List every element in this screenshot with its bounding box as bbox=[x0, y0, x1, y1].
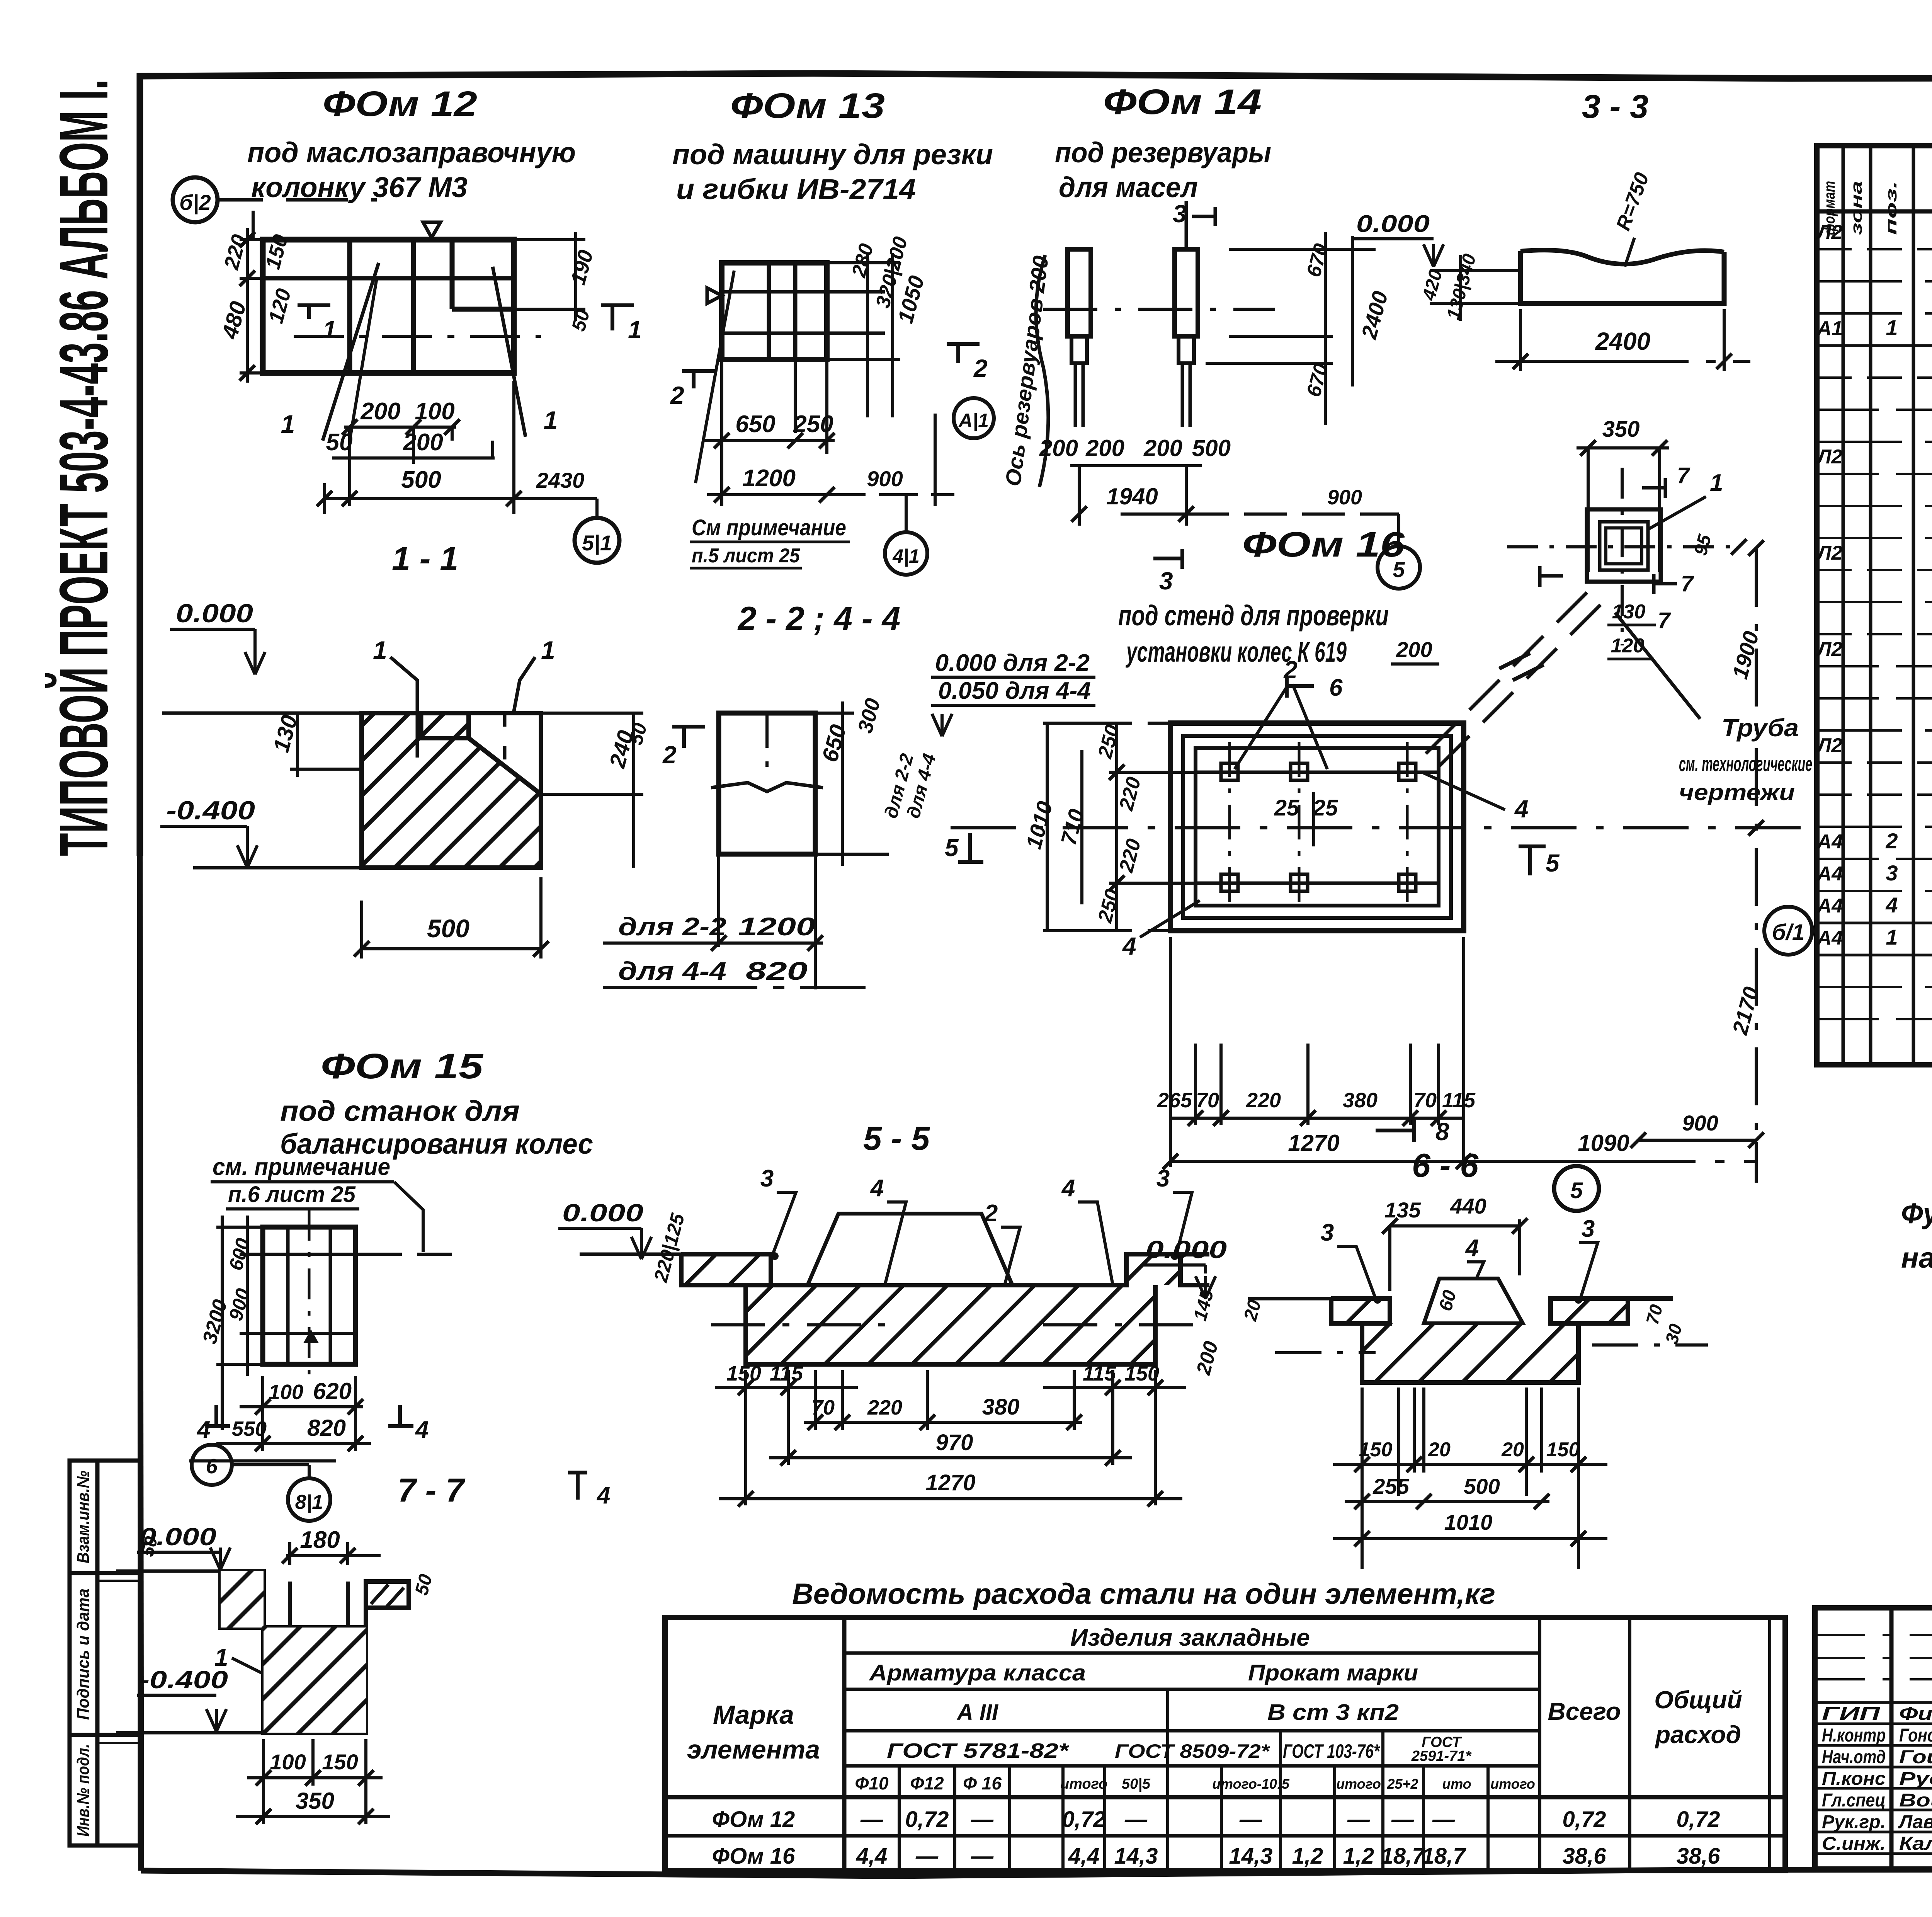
svg-text:1200: 1200 bbox=[738, 912, 815, 941]
svg-text:Гл.спец: Гл.спец bbox=[1822, 1790, 1886, 1811]
svg-text:Арматура класса: Арматура класса bbox=[869, 1660, 1086, 1685]
svg-text:2 - 2 ; 4 - 4: 2 - 2 ; 4 - 4 bbox=[737, 600, 901, 637]
svg-text:8: 8 bbox=[1435, 1118, 1449, 1146]
svg-text:А4: А4 bbox=[1816, 831, 1843, 853]
svg-text:итого: итого bbox=[1490, 1776, 1535, 1792]
svg-text:Всего: Всего bbox=[1548, 1697, 1621, 1725]
svg-text:620: 620 bbox=[313, 1378, 352, 1404]
svg-text:Ф12: Ф12 bbox=[910, 1773, 944, 1793]
svg-text:—: — bbox=[971, 1844, 994, 1869]
svg-text:-0.400: -0.400 bbox=[166, 796, 255, 825]
svg-text:4: 4 bbox=[1061, 1175, 1075, 1202]
svg-text:ГОСТ 5781-82*: ГОСТ 5781-82* bbox=[887, 1739, 1070, 1762]
svg-text:7: 7 bbox=[1677, 463, 1690, 488]
svg-text:4: 4 bbox=[1465, 1235, 1479, 1262]
svg-text:650: 650 bbox=[735, 411, 775, 438]
svg-text:200: 200 bbox=[1143, 435, 1182, 461]
svg-text:5|1: 5|1 bbox=[582, 531, 612, 555]
svg-text:350: 350 bbox=[296, 1788, 334, 1814]
svg-text:установки колес К 619: установки колес К 619 bbox=[1125, 636, 1347, 668]
svg-text:4: 4 bbox=[870, 1175, 884, 1202]
svg-text:3: 3 bbox=[1582, 1216, 1595, 1242]
svg-text:900: 900 bbox=[867, 466, 903, 491]
svg-text:180: 180 bbox=[300, 1527, 340, 1553]
svg-text:Н.контр: Н.контр bbox=[1822, 1725, 1886, 1746]
svg-text:1: 1 bbox=[1886, 315, 1898, 340]
svg-text:1: 1 bbox=[1710, 470, 1723, 496]
svg-text:130: 130 bbox=[1612, 601, 1646, 623]
svg-text:4: 4 bbox=[1514, 795, 1529, 823]
svg-text:7 - 7: 7 - 7 bbox=[398, 1472, 466, 1509]
svg-text:14,3: 14,3 bbox=[1114, 1844, 1158, 1869]
svg-text:итого: итого bbox=[1060, 1776, 1107, 1792]
svg-text:150: 150 bbox=[1124, 1362, 1159, 1385]
svg-text:под машину для резки: под машину для резки bbox=[672, 138, 993, 170]
svg-text:см. примечание: см. примечание bbox=[213, 1154, 390, 1180]
svg-text:Гошкин: Гошкин bbox=[1899, 1747, 1932, 1767]
svg-text:1270: 1270 bbox=[925, 1470, 975, 1495]
svg-text:5: 5 bbox=[1570, 1178, 1583, 1203]
svg-text:п.5 лист 25: п.5 лист 25 bbox=[692, 545, 800, 567]
svg-text:38,6: 38,6 bbox=[1563, 1844, 1607, 1869]
svg-text:0.000: 0.000 bbox=[562, 1199, 643, 1227]
svg-text:А4: А4 bbox=[1816, 863, 1843, 885]
svg-text:Л2: Л2 bbox=[1816, 734, 1843, 757]
svg-text:и гибки ИВ-2714: и гибки ИВ-2714 bbox=[676, 173, 916, 205]
svg-text:—: — bbox=[1124, 1807, 1148, 1832]
svg-text:1270: 1270 bbox=[1288, 1130, 1339, 1156]
svg-text:2: 2 bbox=[662, 741, 677, 769]
svg-text:0,72: 0,72 bbox=[905, 1807, 949, 1832]
svg-text:7: 7 bbox=[1681, 571, 1694, 596]
svg-text:1,2: 1,2 bbox=[1343, 1844, 1374, 1869]
svg-text:0.000: 0.000 bbox=[1146, 1236, 1227, 1263]
svg-text:150: 150 bbox=[1359, 1439, 1393, 1461]
svg-text:1010: 1010 bbox=[1444, 1510, 1493, 1534]
svg-text:0.000: 0.000 bbox=[1356, 211, 1430, 237]
svg-text:500: 500 bbox=[1192, 435, 1231, 461]
svg-text:50|5: 50|5 bbox=[1122, 1776, 1151, 1792]
svg-text:3: 3 bbox=[1159, 567, 1173, 595]
svg-text:0.000 для 2-2: 0.000 для 2-2 bbox=[935, 650, 1090, 676]
svg-text:ФОм 14: ФОм 14 bbox=[1103, 82, 1262, 122]
svg-text:2: 2 bbox=[1885, 829, 1898, 853]
svg-text:Ф 16: Ф 16 bbox=[963, 1773, 1002, 1793]
svg-text:на листе 25.: на листе 25. bbox=[1901, 1242, 1932, 1274]
svg-text:4: 4 bbox=[1885, 893, 1898, 917]
svg-text:70: 70 bbox=[1413, 1089, 1437, 1112]
svg-text:20: 20 bbox=[1501, 1439, 1524, 1461]
svg-text:чертежи: чертежи bbox=[1679, 780, 1795, 805]
svg-text:п.6 лист 25: п.6 лист 25 bbox=[228, 1182, 356, 1207]
svg-text:ито: ито bbox=[1442, 1776, 1471, 1792]
svg-text:0,72: 0,72 bbox=[1677, 1807, 1720, 1832]
svg-text:А1: А1 bbox=[1816, 317, 1843, 340]
svg-text:150: 150 bbox=[726, 1362, 761, 1385]
svg-text:500: 500 bbox=[427, 914, 469, 943]
svg-text:Л2: Л2 bbox=[1816, 446, 1843, 468]
svg-text:2591-71*: 2591-71* bbox=[1411, 1748, 1472, 1764]
svg-text:Финкер: Финкер bbox=[1899, 1704, 1932, 1724]
svg-text:Труба: Труба bbox=[1721, 714, 1799, 742]
svg-text:200: 200 bbox=[403, 429, 443, 456]
svg-text:1090: 1090 bbox=[1578, 1130, 1629, 1156]
svg-text:ФОм 12: ФОм 12 bbox=[712, 1807, 795, 1832]
svg-text:Инв.№ подл.: Инв.№ подл. bbox=[74, 1744, 93, 1837]
svg-text:Калинич: Калинич bbox=[1899, 1834, 1932, 1854]
svg-text:200: 200 bbox=[1039, 435, 1078, 461]
svg-text:б|2: б|2 bbox=[179, 190, 211, 215]
svg-text:итого-10:5: итого-10:5 bbox=[1212, 1776, 1290, 1792]
svg-text:900: 900 bbox=[1682, 1111, 1718, 1135]
svg-text:820: 820 bbox=[307, 1415, 346, 1441]
svg-text:1: 1 bbox=[281, 410, 295, 438]
svg-text:440: 440 bbox=[1450, 1194, 1486, 1218]
svg-text:550: 550 bbox=[232, 1417, 267, 1440]
svg-text:П.конс: П.конс bbox=[1822, 1769, 1886, 1789]
svg-text:0,72: 0,72 bbox=[1062, 1807, 1106, 1832]
svg-text:3: 3 bbox=[1156, 1165, 1170, 1192]
svg-text:380: 380 bbox=[982, 1394, 1020, 1420]
svg-text:4: 4 bbox=[1122, 932, 1136, 960]
svg-text:0,72: 0,72 bbox=[1563, 1807, 1606, 1832]
svg-text:ГИП: ГИП bbox=[1822, 1704, 1881, 1724]
svg-text:135: 135 bbox=[1384, 1198, 1421, 1222]
svg-text:для 2-2: для 2-2 bbox=[618, 912, 726, 941]
svg-text:колонку 367 М3: колонку 367 М3 bbox=[251, 171, 468, 203]
svg-text:220: 220 bbox=[1246, 1089, 1281, 1112]
svg-text:под стенд для проверки: под стенд для проверки bbox=[1118, 599, 1389, 632]
svg-text:0.050 для 4-4: 0.050 для 4-4 bbox=[938, 678, 1091, 704]
svg-text:25+2: 25+2 bbox=[1386, 1776, 1418, 1792]
svg-text:1: 1 bbox=[544, 406, 558, 434]
svg-text:70: 70 bbox=[1196, 1089, 1219, 1112]
svg-text:—: — bbox=[1391, 1807, 1414, 1832]
svg-text:900: 900 bbox=[1327, 486, 1362, 509]
svg-text:под маслозаправочную: под маслозаправочную bbox=[247, 136, 576, 169]
svg-text:350: 350 bbox=[1602, 417, 1640, 442]
svg-text:100: 100 bbox=[415, 398, 454, 425]
svg-text:Воинов: Воинов bbox=[1899, 1790, 1932, 1811]
svg-text:см. технологические: см. технологические bbox=[1679, 752, 1812, 776]
svg-text:3: 3 bbox=[1321, 1219, 1334, 1246]
svg-text:Л2: Л2 bbox=[1816, 638, 1843, 661]
svg-text:100: 100 bbox=[269, 1381, 303, 1404]
svg-text:—: — bbox=[860, 1807, 883, 1832]
svg-text:1200: 1200 bbox=[742, 465, 796, 492]
svg-text:250: 250 bbox=[793, 411, 833, 438]
svg-text:4: 4 bbox=[596, 1482, 610, 1509]
svg-text:970: 970 bbox=[936, 1430, 973, 1455]
svg-text:115: 115 bbox=[770, 1362, 803, 1385]
svg-text:255: 255 bbox=[1372, 1474, 1409, 1498]
svg-text:1: 1 bbox=[373, 636, 387, 664]
svg-text:115: 115 bbox=[1442, 1089, 1476, 1112]
svg-text:200: 200 bbox=[1396, 637, 1432, 662]
svg-text:С.инж.: С.инж. bbox=[1822, 1834, 1886, 1854]
svg-text:4|1: 4|1 bbox=[892, 545, 920, 567]
svg-text:1: 1 bbox=[1886, 925, 1898, 949]
svg-text:150: 150 bbox=[1546, 1439, 1580, 1461]
svg-text:2400: 2400 bbox=[1595, 327, 1650, 355]
svg-text:Подпись и дата: Подпись и дата bbox=[74, 1588, 93, 1720]
svg-text:820: 820 bbox=[746, 957, 808, 985]
svg-text:14,3: 14,3 bbox=[1229, 1844, 1273, 1869]
svg-text:0.000: 0.000 bbox=[176, 599, 253, 628]
svg-text:18,7: 18,7 bbox=[1422, 1844, 1467, 1869]
svg-text:1 - 1: 1 - 1 bbox=[392, 540, 458, 577]
svg-text:Рук.гр.: Рук.гр. bbox=[1822, 1812, 1886, 1832]
svg-text:6: 6 bbox=[206, 1455, 218, 1478]
svg-text:8|1: 8|1 bbox=[295, 1491, 323, 1514]
svg-text:под станок для: под станок для bbox=[280, 1095, 520, 1127]
svg-text:50: 50 bbox=[326, 429, 353, 456]
svg-text:7: 7 bbox=[1658, 608, 1671, 633]
svg-text:ГОСТ 8509-72*: ГОСТ 8509-72* bbox=[1115, 1740, 1270, 1762]
svg-text:А4: А4 bbox=[1816, 895, 1843, 917]
svg-text:Л2: Л2 bbox=[1816, 221, 1843, 243]
svg-text:4,4: 4,4 bbox=[856, 1844, 888, 1869]
svg-text:ФОм 12: ФОм 12 bbox=[323, 84, 477, 124]
svg-text:200: 200 bbox=[360, 398, 400, 425]
svg-text:Ф10: Ф10 bbox=[855, 1773, 888, 1793]
svg-text:ФОм 16: ФОм 16 bbox=[712, 1844, 795, 1869]
svg-text:для 4-4: для 4-4 bbox=[618, 957, 726, 985]
svg-text:3: 3 bbox=[1173, 200, 1187, 228]
svg-text:Изделия закладные: Изделия закладные bbox=[1070, 1624, 1310, 1651]
svg-text:6 - 6: 6 - 6 bbox=[1412, 1147, 1479, 1184]
svg-text:ГОСТ 103-76*: ГОСТ 103-76* bbox=[1283, 1740, 1380, 1762]
svg-text:5: 5 bbox=[945, 834, 959, 861]
svg-text:См примечание: См примечание bbox=[692, 515, 846, 540]
svg-text:Л2: Л2 bbox=[1816, 542, 1843, 564]
svg-text:2430: 2430 bbox=[536, 468, 585, 492]
svg-text:Гонсовская: Гонсовская bbox=[1899, 1725, 1932, 1746]
svg-text:А4: А4 bbox=[1816, 927, 1843, 949]
svg-text:А III: А III bbox=[956, 1700, 999, 1725]
svg-text:В ст 3 кп2: В ст 3 кп2 bbox=[1267, 1700, 1399, 1725]
svg-text:элемента: элемента bbox=[687, 1735, 820, 1764]
svg-text:зона: зона bbox=[1848, 181, 1865, 235]
svg-text:20: 20 bbox=[1428, 1439, 1451, 1461]
svg-text:3: 3 bbox=[760, 1165, 774, 1192]
svg-text:—: — bbox=[1347, 1807, 1370, 1832]
svg-text:под резервуары: под резервуары bbox=[1055, 136, 1271, 169]
svg-text:—: — bbox=[1239, 1807, 1262, 1832]
svg-text:—: — bbox=[915, 1844, 939, 1869]
svg-text:Марка: Марка bbox=[713, 1700, 794, 1730]
svg-text:Лавренко: Лавренко bbox=[1898, 1812, 1932, 1832]
svg-text:ФОм 16: ФОм 16 bbox=[1242, 525, 1405, 564]
svg-text:265: 265 bbox=[1157, 1089, 1192, 1112]
svg-text:120: 120 bbox=[1611, 635, 1645, 657]
svg-text:поз.: поз. bbox=[1883, 181, 1900, 235]
svg-text:Общий: Общий bbox=[1654, 1686, 1742, 1714]
svg-text:для масел: для масел bbox=[1059, 171, 1198, 203]
svg-text:4,4: 4,4 bbox=[1068, 1844, 1100, 1869]
svg-text:18,7: 18,7 bbox=[1381, 1844, 1426, 1869]
svg-text:150: 150 bbox=[322, 1750, 358, 1774]
svg-text:70: 70 bbox=[811, 1396, 835, 1419]
svg-text:115: 115 bbox=[1083, 1362, 1116, 1385]
svg-text:5: 5 bbox=[1546, 849, 1560, 877]
svg-text:100: 100 bbox=[270, 1750, 306, 1774]
svg-text:38,6: 38,6 bbox=[1677, 1844, 1721, 1869]
svg-text:Прокат марки: Прокат марки bbox=[1248, 1660, 1418, 1685]
svg-text:1: 1 bbox=[214, 1643, 228, 1671]
svg-text:Взам.инв.№: Взам.инв.№ bbox=[74, 1471, 93, 1563]
svg-text:—: — bbox=[1432, 1807, 1455, 1832]
svg-text:Рудан: Рудан bbox=[1899, 1769, 1932, 1789]
svg-text:2: 2 bbox=[973, 354, 988, 382]
svg-text:расход: расход bbox=[1655, 1721, 1741, 1748]
svg-text:б/1: б/1 bbox=[1772, 920, 1804, 945]
svg-text:итого: итого bbox=[1336, 1776, 1381, 1792]
svg-text:2: 2 bbox=[670, 381, 684, 409]
svg-text:500: 500 bbox=[401, 466, 441, 493]
svg-text:1,2: 1,2 bbox=[1292, 1844, 1323, 1869]
svg-text:ТИПОВОЙ ПРОЕКТ 503-4-43.86 АЛЬ: ТИПОВОЙ ПРОЕКТ 503-4-43.86 АЛЬБОМ I. bbox=[45, 79, 122, 856]
svg-text:25: 25 bbox=[1274, 795, 1299, 821]
svg-text:25: 25 bbox=[1313, 795, 1338, 821]
svg-text:380: 380 bbox=[1343, 1089, 1378, 1112]
svg-text:1: 1 bbox=[628, 316, 642, 344]
svg-text:6: 6 bbox=[1329, 674, 1343, 701]
svg-text:3 - 3: 3 - 3 bbox=[1582, 88, 1648, 125]
svg-text:ФОм 13: ФОм 13 bbox=[730, 86, 885, 126]
svg-text:5 - 5: 5 - 5 bbox=[863, 1120, 930, 1157]
svg-text:А|1: А|1 bbox=[958, 410, 989, 431]
svg-text:220: 220 bbox=[867, 1396, 902, 1419]
svg-text:—: — bbox=[971, 1807, 994, 1832]
svg-text:200: 200 bbox=[1085, 435, 1124, 461]
svg-text:500: 500 bbox=[1464, 1474, 1500, 1498]
svg-text:3: 3 bbox=[1886, 861, 1898, 885]
svg-text:4: 4 bbox=[196, 1416, 210, 1443]
svg-text:2: 2 bbox=[984, 1200, 998, 1227]
svg-text:Ведомость расхода стали на: Ведомость расхода стали на один элемент,… bbox=[792, 1578, 1495, 1611]
svg-text:1: 1 bbox=[541, 636, 555, 664]
svg-text:4: 4 bbox=[415, 1416, 429, 1443]
svg-text:Нач.отд: Нач.отд bbox=[1822, 1747, 1886, 1767]
svg-text:ФОм 15: ФОм 15 bbox=[321, 1047, 484, 1086]
svg-text:1: 1 bbox=[323, 316, 337, 344]
svg-text:Фундаменты ФОм12÷ФОм 16 зама: Фундаменты ФОм12÷ФОм 16 замаркированы bbox=[1901, 1197, 1932, 1229]
svg-text:1940: 1940 bbox=[1106, 484, 1158, 509]
